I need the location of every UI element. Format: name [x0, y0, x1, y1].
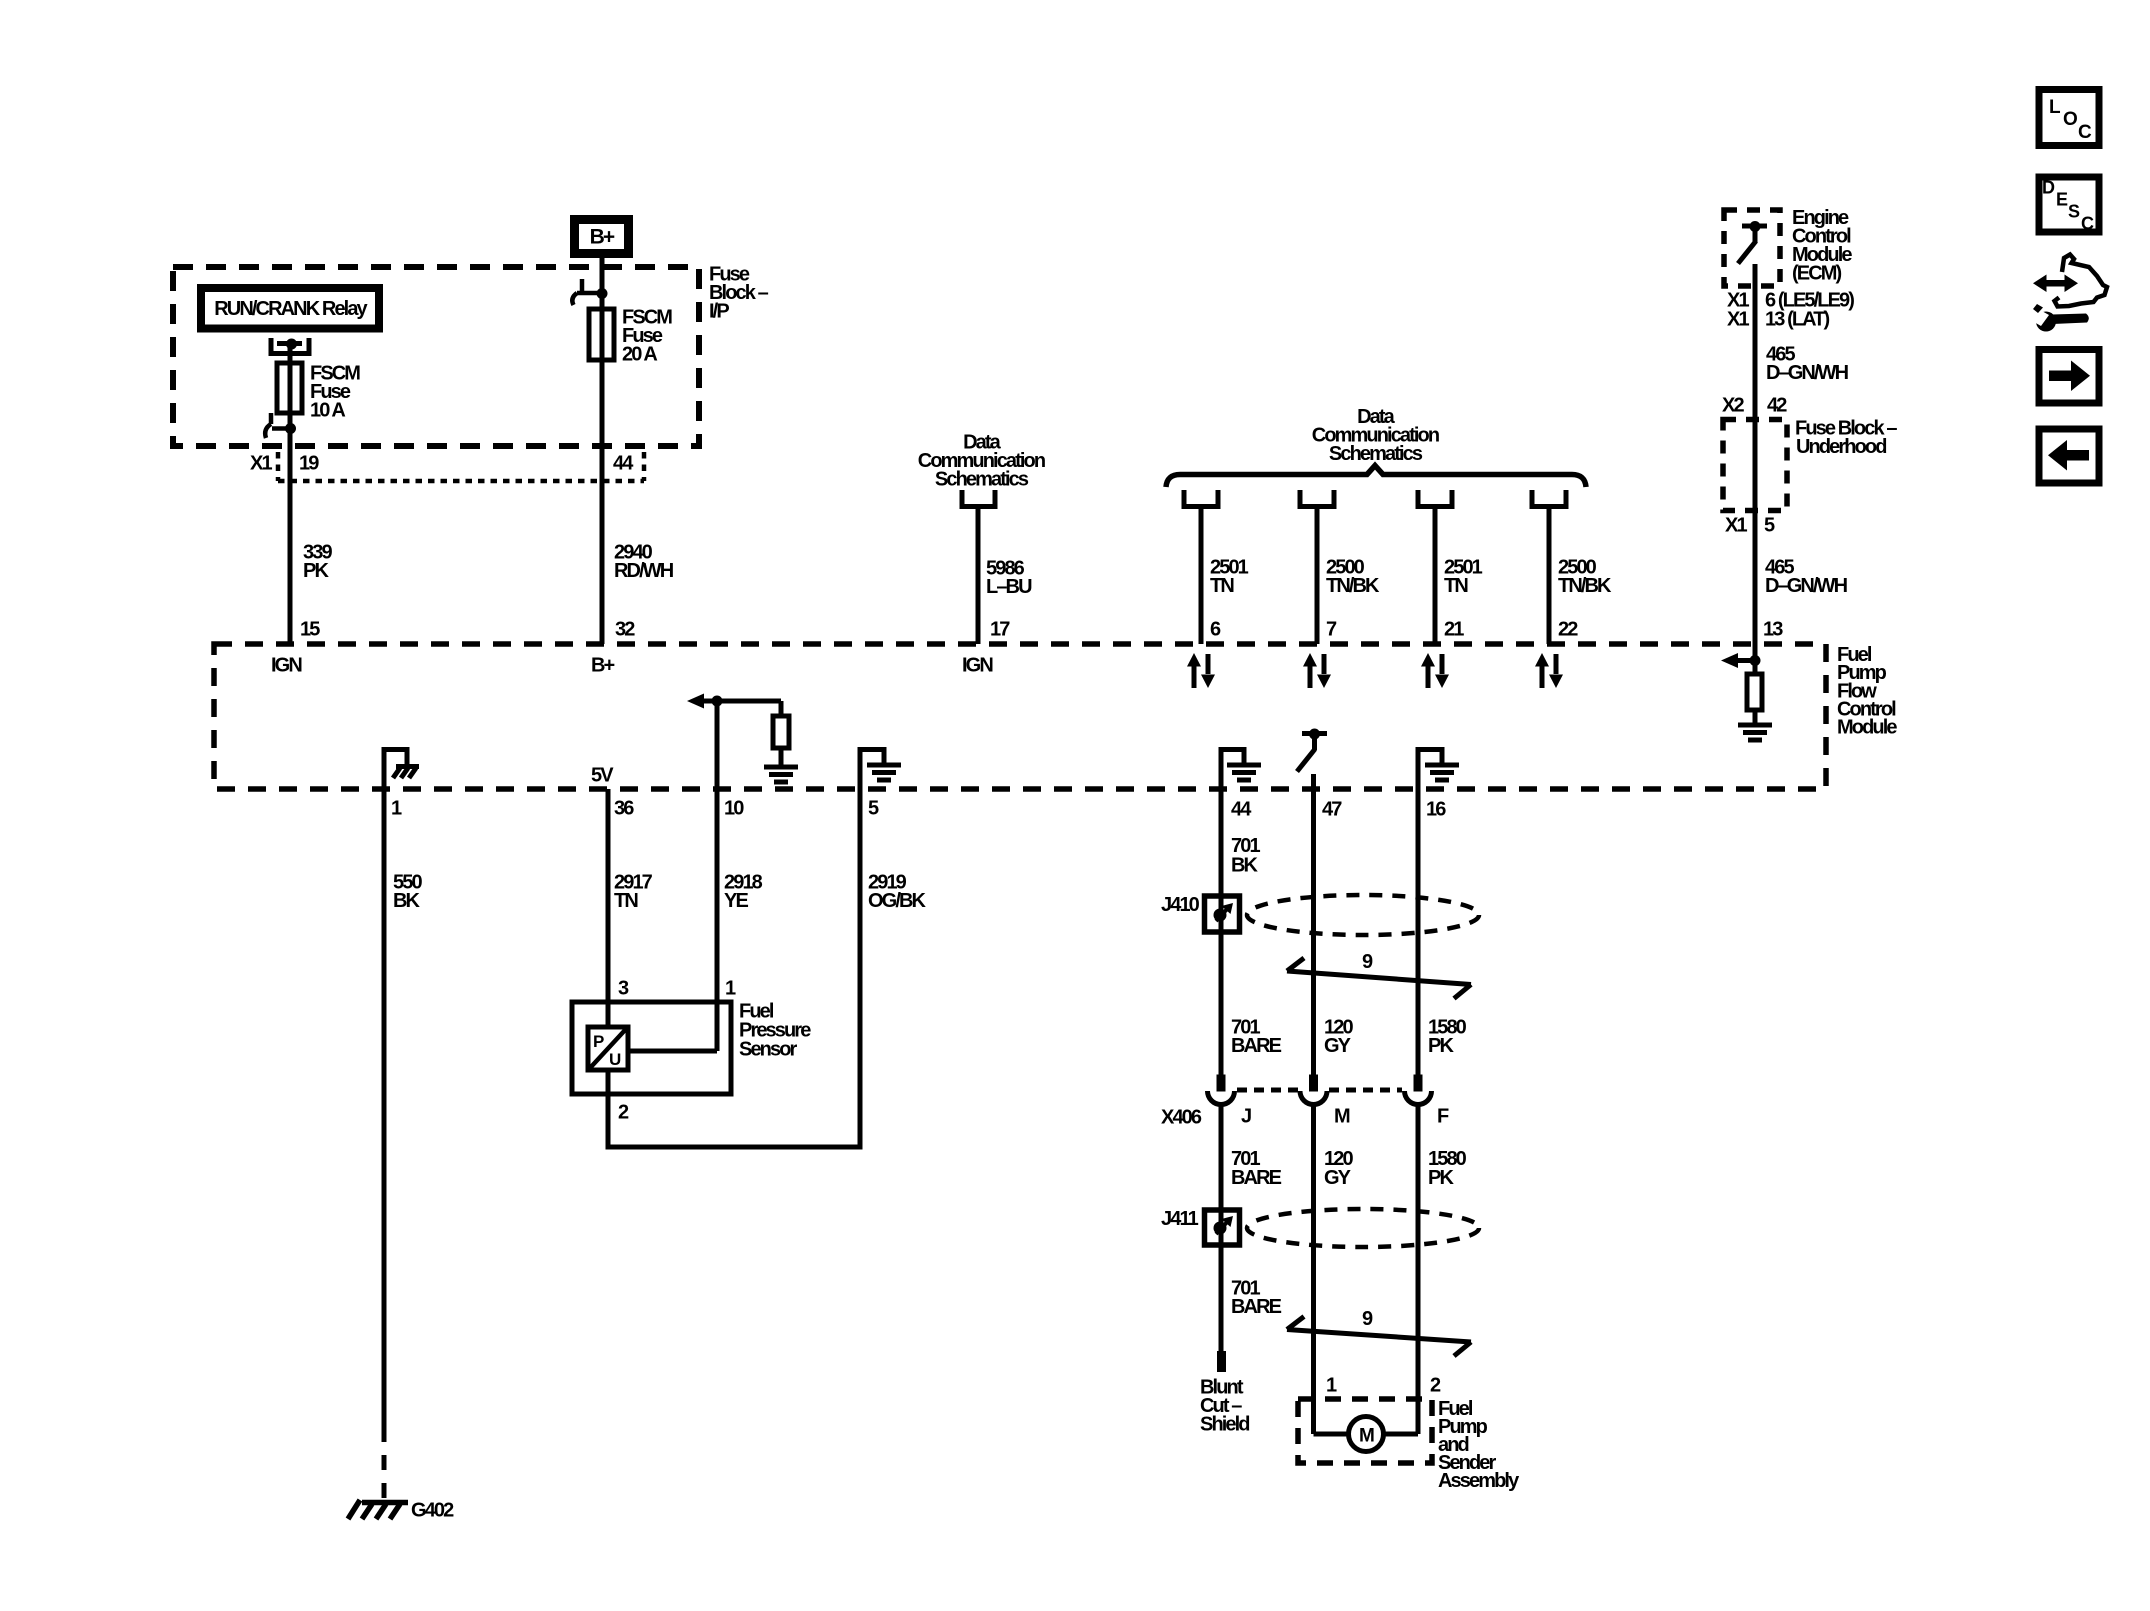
shield ellipse at J410: [1247, 895, 1479, 935]
branch bracket data wire 21: [1416, 490, 1455, 507]
svg-text:47: 47: [1322, 799, 1342, 821]
svg-text:PK: PK: [1428, 1167, 1454, 1189]
ECM label: [1792, 207, 1852, 285]
internal arrow left at pin 13: [1736, 658, 1755, 663]
internal ground branch at pin 5: [860, 750, 884, 764]
twisted lead arrow 9 lower: [1287, 1317, 1471, 1357]
svg-text:IGN: IGN: [271, 655, 302, 677]
svg-text:21: 21: [1444, 619, 1464, 641]
internal pull-up at pin 13: junction dot: [1750, 655, 1761, 666]
bidirectional data arrows pin 21: [1421, 653, 1449, 688]
fuel pressure sensor box: [572, 1002, 731, 1094]
fuse block underhood dashed box: [1723, 420, 1787, 511]
svg-text:YE: YE: [724, 890, 748, 912]
wire pin16 col X406 down: [1416, 1106, 1421, 1435]
connector X1 dotted boundary: [278, 452, 644, 481]
svg-text:C: C: [2081, 214, 2094, 234]
fuse F1 FSCM Fuse 10A: [277, 363, 302, 413]
wire pin44 col X406 to J411: [1219, 1106, 1224, 1211]
connector contact below B+: [572, 279, 598, 305]
svg-text:Assembly: Assembly: [1438, 1470, 1520, 1492]
B+ terminal box: [570, 215, 633, 258]
connector contact below fuse 10A: [265, 413, 288, 438]
wire 5986 L-BU to pin 17: [976, 507, 981, 644]
wire 701 BK label: [1231, 835, 1260, 877]
connector labels X1 6 / X1 13: [1727, 290, 1854, 331]
data communication schematics label left: [918, 432, 1045, 491]
svg-text:X2: X2: [1722, 395, 1744, 417]
brace over data wires: [1166, 466, 1586, 488]
repair icon wrench: [2027, 304, 2089, 332]
branch bracket data wire 7: [1298, 490, 1337, 507]
svg-text:TN: TN: [614, 890, 638, 912]
svg-text:X1: X1: [1727, 309, 1749, 331]
internal ground branch at pin 1 (chassis): [384, 750, 407, 765]
svg-text:J411: J411: [1161, 1208, 1199, 1230]
ground earth below pin 10 resistor: [764, 767, 798, 782]
svg-text:36: 36: [614, 798, 634, 820]
ECM dashed box: [1724, 210, 1780, 286]
internal ground branch at pin 44: [1221, 750, 1244, 764]
connector X1 pin labels: [250, 453, 634, 475]
wire relay to FPFCM pin 15: [288, 345, 293, 644]
sensor pin labels 3 1: [618, 978, 736, 1000]
svg-text:P: P: [593, 1032, 604, 1051]
svg-text:10: 10: [724, 798, 744, 820]
svg-text:17: 17: [990, 619, 1010, 641]
shield ellipse at J411: [1247, 1209, 1479, 1247]
fuse F2 FSCM Fuse 20A: [589, 309, 614, 360]
connector X406 pin J: [1217, 1075, 1226, 1092]
wire 2500 TN/BK pin 22: [1547, 507, 1552, 644]
internal ground branch at pin 16: [1418, 750, 1442, 764]
twisted lead arrow 9 upper: [1287, 958, 1471, 999]
sensor label: [739, 1001, 811, 1061]
repair icon part outline: [2055, 255, 2108, 307]
wire sensor pin2 to 2919 horizontal: [606, 1145, 863, 1150]
svg-text:D–GN/WH: D–GN/WH: [1765, 575, 1848, 597]
wire 465 D-GN/WH lower label: [1765, 557, 1848, 598]
relay contact bracket at RUN/CRANK relay output: [269, 338, 312, 354]
svg-text:X406: X406: [1161, 1107, 1202, 1129]
svg-text:TN: TN: [1210, 575, 1234, 597]
wire pin44 col J411 to blunt cut: [1219, 1245, 1224, 1351]
svg-text:F: F: [1437, 1106, 1449, 1128]
wire 5986 L-BU label: [986, 558, 1032, 599]
ECM internal switch: [1738, 226, 1767, 264]
fuse block I/P label: [709, 264, 769, 323]
svg-text:PK: PK: [1428, 1035, 1454, 1057]
ground G402 chassis: [348, 1500, 408, 1519]
svg-text:L–BU: L–BU: [986, 576, 1032, 598]
wire B+ to FPFCM pin 32: [600, 258, 605, 644]
svg-text:19: 19: [299, 453, 319, 475]
internal branch at pin 10: horizontal with arrow and resistor: [700, 699, 781, 704]
svg-text:BK: BK: [393, 890, 421, 912]
P/U transducer box: [588, 1027, 628, 1070]
connector X1 5 labels: [1725, 515, 1775, 537]
resistor R at pin 13: [1753, 661, 1758, 675]
svg-text:B+: B+: [591, 655, 615, 677]
svg-text:I/P: I/P: [709, 301, 729, 323]
svg-text:Sensor: Sensor: [739, 1039, 798, 1061]
branch bracket left data wire: [960, 490, 998, 507]
svg-text:X1: X1: [1725, 515, 1747, 537]
wire 550 BK label: [393, 872, 422, 913]
DESC icon box: [2039, 177, 2099, 232]
LOC icon box: [2039, 90, 2099, 146]
junction dot relay output: [286, 339, 297, 350]
wire 2500 TN/BK pin 7: [1315, 507, 1320, 644]
connector X406 dashed links: [1237, 1088, 1402, 1093]
fuel pump pin labels 1 2: [1326, 1375, 1441, 1397]
svg-text:Underhood: Underhood: [1796, 436, 1886, 458]
wire 339 PK label: [303, 542, 332, 583]
connector X406 pin M: [1309, 1075, 1318, 1092]
svg-text:OG/BK: OG/BK: [868, 890, 927, 912]
splice J410 box: [1205, 896, 1240, 932]
svg-text:J: J: [1241, 1106, 1251, 1128]
internal switch at pin 47: [1297, 734, 1327, 772]
repair icon double arrow: [2033, 275, 2078, 293]
wire 2917 TN pin 36 down: [606, 789, 611, 1147]
svg-text:22: 22: [1558, 619, 1578, 641]
wire 2919 OG/BK pin 5 down: [858, 747, 863, 1147]
branch bracket data wire 6: [1182, 490, 1221, 507]
fuse block underhood label: [1795, 418, 1897, 459]
wire pin1 dashed to ground: [382, 1427, 387, 1499]
svg-text:13: 13: [1763, 619, 1783, 641]
svg-text:RUN/CRANK Relay: RUN/CRANK Relay: [214, 298, 368, 320]
wire 2918 YE pin 10 down: [715, 701, 720, 1051]
svg-text:RD/WH: RD/WH: [614, 560, 674, 582]
wire pin16 col down to X406: [1416, 747, 1421, 1075]
wire 2940 RD/WH label: [614, 542, 674, 583]
blunt cut shield terminal: [1217, 1351, 1226, 1372]
connector X406 pin F: [1414, 1075, 1423, 1092]
relay K RUN/CRANK Relay box: [197, 284, 383, 333]
svg-text:44: 44: [613, 453, 634, 475]
pin numbers bottom edge: [391, 798, 1446, 821]
bidirectional data arrows pin 22: [1535, 653, 1563, 688]
wire labels data wires: [1210, 557, 1612, 598]
sensor internal connection to P/U: [627, 1049, 717, 1054]
junction dot B+ contact: [597, 288, 608, 299]
FPFCM fuel pump flow control module dashed box: [214, 644, 1826, 789]
svg-text:32: 32: [615, 619, 635, 641]
wire pin47 col down to X406: [1311, 774, 1316, 1075]
svg-text:O: O: [2063, 109, 2077, 130]
svg-text:Shield: Shield: [1200, 1414, 1249, 1436]
svg-text:B+: B+: [590, 226, 615, 249]
wire pin44 col upper: [1219, 747, 1224, 896]
fuel pump and sender assembly label: [1438, 1398, 1520, 1492]
wires into pump to motor: [1314, 1432, 1419, 1437]
svg-text:X1: X1: [250, 453, 272, 475]
wire pin44 col J410 to X406: [1219, 932, 1224, 1075]
connector X406 labels: [1161, 1106, 1449, 1129]
wire labels 701 BARE 120 GY 1580 PK lower: [1231, 1148, 1467, 1189]
svg-text:U: U: [609, 1050, 621, 1069]
svg-text:M: M: [1334, 1106, 1350, 1128]
data communication schematics label center: [1312, 406, 1439, 465]
wire 2501 TN pin 21: [1433, 507, 1438, 644]
svg-text:TN/BK: TN/BK: [1558, 575, 1612, 597]
svg-text:D: D: [2042, 178, 2055, 198]
svg-text:J410: J410: [1161, 894, 1200, 916]
svg-text:(ECM): (ECM): [1792, 263, 1842, 285]
branch bracket data wire 22: [1530, 490, 1569, 507]
splice J411 box: [1205, 1210, 1240, 1245]
wire labels 701 BARE 120 GY 1580 PK upper: [1231, 1017, 1467, 1058]
wire pin47 col X406 down: [1311, 1106, 1316, 1435]
svg-text:GY: GY: [1324, 1167, 1352, 1189]
wire ECM to FPFCM pin 13: [1753, 264, 1758, 661]
ground earth at pin 13 resistor: [1738, 725, 1772, 740]
wire 2501 TN pin 6: [1199, 507, 1204, 644]
svg-text:Module: Module: [1837, 717, 1897, 739]
fuel pump and sender assembly dashed box: [1298, 1399, 1432, 1463]
resistor R at pin 10 branch: [773, 716, 789, 748]
svg-text:D–GN/WH: D–GN/WH: [1766, 362, 1849, 384]
svg-text:13 (LAT): 13 (LAT): [1765, 309, 1830, 331]
junction dot below fuse 10A: [285, 423, 296, 434]
wire 701 BARE label bottom: [1231, 1278, 1282, 1319]
svg-text:GY: GY: [1324, 1035, 1352, 1057]
svg-text:M: M: [1359, 1426, 1374, 1447]
svg-text:5V: 5V: [591, 765, 614, 787]
svg-text:PK: PK: [303, 560, 329, 582]
svg-text:IGN: IGN: [962, 655, 993, 677]
nav arrow right icon box: [2039, 350, 2099, 404]
pin numbers 6 7 21 22: [1210, 619, 1578, 641]
ECM switch dot: [1750, 221, 1761, 232]
module pin names IGN B+ IGN: [271, 655, 993, 677]
svg-text:42: 42: [1767, 395, 1787, 417]
svg-text:16: 16: [1426, 799, 1446, 821]
svg-text:BARE: BARE: [1231, 1167, 1282, 1189]
svg-text:Schematics: Schematics: [1329, 443, 1423, 465]
svg-text:TN: TN: [1444, 575, 1468, 597]
wire labels 2917 2918 2919: [614, 872, 927, 913]
wire pin1 down: [382, 747, 387, 1427]
motor M fuel pump: [1349, 1417, 1384, 1452]
svg-text:44: 44: [1231, 799, 1252, 821]
svg-text:G402: G402: [411, 1500, 454, 1522]
svg-text:Schematics: Schematics: [935, 469, 1029, 491]
svg-text:TN/BK: TN/BK: [1326, 575, 1380, 597]
fuse block I/P dashed box: [173, 267, 699, 446]
connector X2 42 labels: [1722, 395, 1787, 417]
nav arrow left icon box: [2039, 429, 2099, 483]
wire 465 D-GN/WH upper label: [1766, 344, 1849, 385]
svg-text:BARE: BARE: [1231, 1296, 1282, 1318]
svg-text:BK: BK: [1231, 855, 1259, 877]
bidirectional data arrows pin 6: [1187, 653, 1215, 688]
svg-text:BARE: BARE: [1231, 1035, 1282, 1057]
bidirectional data arrows pin 7: [1303, 653, 1331, 688]
svg-text:20 A: 20 A: [622, 344, 657, 366]
svg-text:15: 15: [300, 619, 320, 641]
FPFCM label: [1837, 644, 1897, 739]
svg-text:10 A: 10 A: [310, 400, 345, 422]
